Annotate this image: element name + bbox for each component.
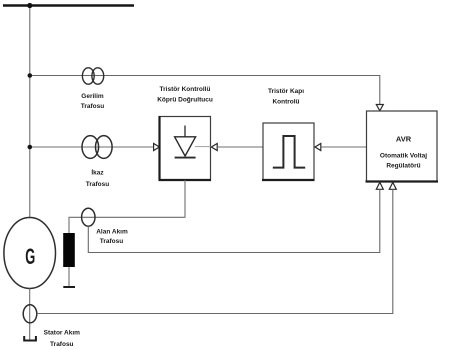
- wire rectifier output to field winding: [69, 180, 185, 233]
- ground bracket under CT2: [24, 336, 36, 341]
- block U1 tristor kontrollu kopru dogrultucu: [160, 117, 211, 181]
- svg-text:Trafosu: Trafosu: [86, 181, 110, 188]
- arrow into U2 right (from AVR): [315, 144, 321, 151]
- thick bottom border of U1: [159, 179, 212, 181]
- wire AVR output to gate control: [321, 146, 367, 148]
- current transformer CT1 alan akim trafosu: [82, 208, 95, 226]
- wire generator to stator CT and ground: [29, 289, 31, 340]
- label gerilim trafosu: [81, 93, 105, 110]
- thyristor D1 symbol inside U1: [175, 126, 196, 158]
- svg-text:Tristör Kontrollü: Tristör Kontrollü: [160, 86, 211, 93]
- svg-text:Tristör Kapı: Tristör Kapı: [268, 88, 304, 95]
- current transformer CT2 stator akim trafosu: [23, 305, 37, 323]
- svg-text:Kontrolü: Kontrolü: [272, 99, 299, 106]
- wire gate control to rectifier: [217, 146, 263, 148]
- svg-text:G: G: [25, 244, 35, 269]
- label ikaz trafosu: [86, 169, 110, 188]
- svg-text:Alan Akım: Alan Akım: [96, 229, 128, 236]
- label alan akim trafosu: [96, 229, 128, 246]
- block U3 AVR otomatik voltaj regulatoru: [367, 111, 438, 182]
- label tristor kapi kontrolu: [268, 88, 304, 106]
- label AVR: [380, 135, 427, 170]
- wire CT2 to AVR bottom right: [37, 189, 393, 313]
- svg-text:İkaz: İkaz: [91, 169, 104, 177]
- svg-text:Köprü Doğrultucu: Köprü Doğrultucu: [157, 97, 213, 104]
- thick left border of U1: [158, 116, 160, 180]
- thick bottom border of U3: [366, 180, 439, 182]
- wire vertical from busbar to generator: [29, 6, 31, 218]
- svg-text:Trafosu: Trafosu: [81, 103, 105, 110]
- pulse waveform symbol inside U2: [273, 136, 305, 168]
- generator G1: [4, 218, 56, 289]
- block U2 tristor kapi kontrolu: [263, 123, 314, 180]
- wire CT1 to AVR bottom left: [88, 189, 380, 252]
- svg-text:Gerilim: Gerilim: [81, 93, 104, 100]
- arrow into U1 right (gate drive): [211, 144, 217, 151]
- thick bottom border of U2: [262, 179, 315, 181]
- transformer T2 ikaz trafosu: [82, 136, 112, 159]
- wire field winding to ground: [68, 267, 70, 287]
- transformer T1 gerilim trafosu: [82, 68, 103, 84]
- svg-text:AVR: AVR: [396, 135, 412, 144]
- svg-text:Otomatik Voltaj: Otomatik Voltaj: [380, 153, 427, 160]
- node junction on busbar: [27, 3, 32, 8]
- label tristor kontrollu kopru dogrultucu: [157, 86, 213, 104]
- arrow into AVR top: [376, 105, 383, 111]
- ground under field winding: [63, 286, 75, 288]
- arrow into rectifier left: [154, 144, 160, 151]
- wire ikaz trafo row: [30, 146, 154, 148]
- busbar (generator output bus): [3, 4, 134, 6]
- arrow into AVR bottom right (stator current): [389, 182, 396, 189]
- node junction gerilim tap: [28, 73, 33, 78]
- svg-text:Regülatörü: Regülatörü: [386, 163, 420, 170]
- svg-text:Stator Akım: Stator Akım: [44, 330, 80, 337]
- gate line inside U1: [195, 146, 211, 148]
- wire gerilim trafo row to AVR top: [30, 76, 380, 105]
- svg-text:Trafosu: Trafosu: [100, 238, 124, 245]
- arrow into AVR bottom left (field current): [376, 182, 383, 189]
- svg-text:Trafosu: Trafosu: [50, 341, 74, 348]
- field winding L1: [63, 233, 75, 267]
- label stator akim trafosu: [44, 330, 80, 348]
- node junction ikaz tap: [28, 145, 33, 150]
